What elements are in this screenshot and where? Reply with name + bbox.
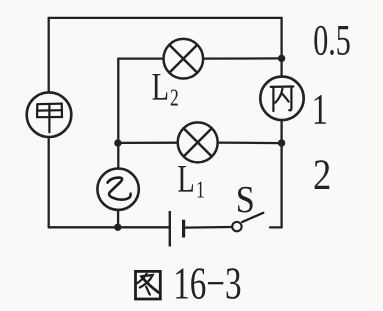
- label 甲 (drawn glyph): [37, 104, 62, 133]
- svg-text:L: L: [177, 158, 194, 200]
- wire branch L2: [118, 57, 281, 59]
- svg-text:S: S: [236, 178, 255, 220]
- label L2: [152, 66, 169, 108]
- wire bottom left: [49, 226, 169, 228]
- wire branch L1: [118, 141, 282, 144]
- svg-text:2: 2: [313, 150, 331, 198]
- wire right middle: [280, 120, 282, 227]
- label L1: [177, 158, 194, 200]
- node dot right-mid: [278, 139, 285, 146]
- wire left lower: [48, 137, 50, 227]
- svg-text:1: 1: [312, 86, 328, 134]
- node dot inner-mid: [114, 139, 121, 146]
- label 0.5: [313, 17, 351, 65]
- label S: [236, 178, 255, 220]
- lamp L2: [164, 39, 204, 79]
- svg-text:L: L: [152, 66, 169, 108]
- svg-text:2: 2: [170, 84, 179, 111]
- caption 16-3: [173, 257, 241, 309]
- caption 图 (drawn glyph): [136, 271, 161, 299]
- svg-text:1: 1: [196, 176, 205, 203]
- label 2: [313, 150, 331, 198]
- wire top: [49, 17, 282, 19]
- wire inner vertical upper: [117, 59, 119, 169]
- node dot bottom: [114, 224, 121, 231]
- wire right upper: [280, 18, 282, 77]
- label 1: [312, 86, 328, 134]
- battery cell: [170, 211, 184, 247]
- ammeter A-jia U甲: [27, 92, 72, 137]
- lamp L1: [178, 122, 218, 162]
- label 丙 (drawn glyph): [271, 87, 294, 112]
- label 乙 (drawn glyph): [108, 178, 131, 200]
- wire inner vertical lower: [117, 210, 119, 227]
- wire battery to switch: [185, 226, 232, 229]
- svg-text:0.5: 0.5: [313, 17, 351, 65]
- svg-text:16−3: 16−3: [173, 257, 241, 309]
- switch S: [232, 213, 263, 232]
- node dot right-top: [278, 55, 285, 62]
- ammeter A-bing U丙: [260, 77, 303, 120]
- wire switch hook: [270, 226, 282, 228]
- ammeter A-yi U乙: [97, 169, 138, 210]
- wire left upper: [48, 18, 50, 93]
